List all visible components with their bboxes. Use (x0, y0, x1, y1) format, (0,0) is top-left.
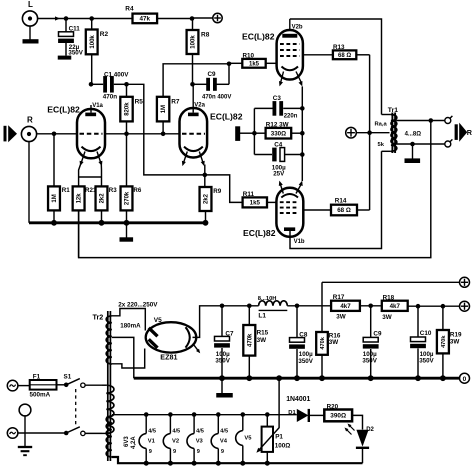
svg-text:47k: 47k (140, 16, 151, 23)
svg-text:4/5: 4/5 (220, 429, 228, 435)
wire Tr1 secondary bottom (397, 142, 445, 147)
node grid junctions (52, 132, 166, 137)
capacitor C10 (410, 306, 434, 378)
svg-text:820k: 820k (125, 102, 131, 116)
svg-text:1k5: 1k5 (250, 200, 261, 207)
wire R20 to LED (352, 415, 362, 429)
svg-text:1k5: 1k5 (249, 62, 260, 68)
transformer Tr1 (375, 107, 422, 153)
resistor R6 (121, 134, 142, 223)
svg-text:C9: C9 (208, 71, 217, 78)
ground symbol cathode network (235, 126, 254, 141)
svg-text:Tr2: Tr2 (93, 313, 104, 322)
supply terminal + (preamp) (192, 13, 222, 22)
svg-text:V5: V5 (244, 436, 252, 442)
wire Tr2 HV centre tap to ground (112, 337, 134, 378)
choke L1 (258, 296, 331, 319)
wire L input to R4 and supply node (38, 16, 193, 20)
triode V2a (180, 84, 243, 166)
wire grid network V2b (R7 top to R10/C9 node) (163, 64, 229, 97)
svg-text:C1 400V: C1 400V (104, 71, 129, 78)
resistor R18 (382, 294, 408, 321)
wire negative feedback loop (79, 121, 431, 258)
input jack R (21, 116, 36, 142)
svg-text:3W: 3W (336, 314, 346, 321)
svg-text:68 Ω: 68 Ω (338, 53, 351, 59)
resistor R16 (316, 282, 341, 378)
resistor R9 (200, 187, 222, 223)
input icon R channel (4, 125, 18, 142)
resistor R3 (96, 186, 118, 223)
pentode V1b (243, 181, 305, 246)
capacitor C9 coupling (190, 62, 231, 101)
ground bus psu (134, 375, 460, 381)
earth symbol (18, 447, 32, 455)
svg-text:2k2: 2k2 (100, 193, 106, 204)
svg-text:Ra,a: Ra,a (375, 121, 388, 127)
svg-text:500mA: 500mA (30, 392, 51, 399)
svg-text:100k: 100k (90, 35, 96, 49)
capacitor C7 (214, 304, 234, 379)
svg-text:4/5: 4/5 (196, 429, 204, 435)
svg-text:8...10H: 8...10H (258, 296, 277, 302)
resistor R7 (157, 97, 180, 134)
wire top B+ rail (322, 281, 460, 283)
pentode V2b (242, 19, 303, 86)
wire V2b plate to Tr1 primary top (290, 19, 382, 115)
svg-text:V3: V3 (196, 439, 204, 445)
fuse F1 (30, 373, 57, 398)
svg-text:470k: 470k (320, 336, 326, 349)
mains terminal live (7, 380, 29, 391)
capacitor C3 (254, 95, 302, 119)
mains terminal neutral (7, 428, 64, 439)
svg-text:470n 400V: 470n 400V (202, 94, 231, 100)
wire screen rail R13/R14 to supply node (367, 55, 372, 210)
svg-text:4k7: 4k7 (390, 303, 401, 310)
svg-text:L1: L1 (258, 313, 266, 320)
output terminal top (445, 116, 453, 124)
svg-text:C3: C3 (273, 95, 282, 102)
heater V4 (211, 415, 228, 464)
earth terminal (19, 404, 31, 447)
resistor R20 (324, 404, 352, 422)
svg-text:1N4001: 1N4001 (286, 396, 310, 403)
resistor R1 (48, 134, 70, 223)
svg-text:R14: R14 (335, 198, 347, 205)
resistor R12 (254, 122, 302, 139)
wire R jack ground stem (28, 142, 30, 223)
switch link dashed (75, 389, 77, 427)
svg-text:R7: R7 (171, 98, 180, 105)
svg-text:100Ω: 100Ω (275, 443, 291, 450)
ground bus amp (29, 220, 208, 226)
resistor R13 (303, 44, 370, 59)
ground below C11 (58, 56, 72, 60)
svg-text:R12 3W: R12 3W (266, 122, 289, 129)
svg-text:220n: 220n (284, 114, 298, 120)
svg-text:270k: 270k (125, 191, 131, 205)
svg-text:2k2: 2k2 (204, 193, 210, 204)
diode D1 1N4001 (286, 396, 324, 422)
wire Tr2 HV top to EZ81 anode (112, 309, 145, 331)
resistor R19 (437, 306, 462, 378)
svg-text:12k: 12k (77, 193, 83, 204)
svg-text:R9: R9 (213, 188, 221, 195)
potentiometer P1 (262, 415, 291, 464)
svg-text:C4: C4 (274, 141, 283, 148)
svg-text:V2: V2 (172, 439, 179, 445)
wire C1 out to V1b grid via bottom run (127, 84, 243, 202)
svg-text:R17: R17 (333, 294, 345, 301)
resistor R15 (243, 304, 268, 379)
svg-text:R5: R5 (135, 98, 144, 105)
svg-text:R4: R4 (125, 5, 134, 12)
svg-text:350V: 350V (362, 358, 377, 365)
svg-text:470n: 470n (103, 94, 118, 101)
svg-text:5k: 5k (378, 142, 385, 148)
heater V1 (139, 415, 156, 464)
svg-text:V1b: V1b (294, 239, 305, 245)
svg-text:EC(L)82: EC(L)82 (47, 105, 80, 115)
capacitor C1 coupling (89, 71, 130, 100)
svg-text:EZ81: EZ81 (160, 353, 177, 362)
heater V5 (236, 415, 253, 464)
svg-text:330Ω: 330Ω (271, 130, 286, 137)
svg-text:V1: V1 (148, 439, 156, 445)
svg-text:R6: R6 (133, 187, 141, 194)
wire V1a cathode to R21/R3 (79, 165, 102, 187)
resistor R14 (303, 198, 369, 216)
svg-text:P1: P1 (275, 433, 283, 440)
svg-text:R10: R10 (243, 53, 255, 60)
svg-text:R20: R20 (327, 404, 339, 411)
ground below L jack (23, 26, 39, 44)
wire Tr1 secondary top to output (397, 118, 445, 123)
svg-text:9: 9 (197, 449, 200, 455)
svg-text:68 Ω: 68 Ω (337, 207, 351, 214)
svg-text:3W: 3W (382, 314, 392, 321)
svg-text:100k: 100k (191, 35, 197, 49)
node supply-left junction dots (64, 16, 195, 21)
svg-text:R8: R8 (201, 32, 210, 39)
resistor R5 (120, 84, 143, 133)
switch S1a (57, 373, 103, 387)
output terminal bottom (445, 139, 453, 147)
svg-text:9: 9 (173, 449, 176, 455)
svg-text:V1a: V1a (92, 103, 103, 109)
svg-text:C11: C11 (69, 26, 81, 33)
wire cathode network right rail (300, 86, 305, 181)
svg-text:9: 9 (221, 449, 224, 455)
svg-text:V5: V5 (154, 317, 162, 324)
svg-text:R18: R18 (383, 294, 395, 301)
svg-text:390Ω: 390Ω (330, 413, 346, 420)
svg-text:350V: 350V (215, 358, 230, 365)
svg-text:C10: C10 (420, 330, 432, 337)
resistor R11 (243, 191, 277, 207)
svg-text:R: R (27, 116, 33, 125)
svg-text:C9: C9 (373, 331, 382, 338)
supply output terminal + upper (460, 277, 470, 287)
svg-text:EC(L)82: EC(L)82 (210, 111, 243, 121)
svg-text:EC(L)82: EC(L)82 (242, 32, 275, 42)
wire EZ81 cathode to B+ rail (193, 306, 259, 338)
svg-text:350V: 350V (298, 358, 313, 365)
svg-text:3W: 3W (257, 337, 267, 344)
svg-text:R3: R3 (109, 187, 117, 194)
ground symbol psu bus (216, 378, 233, 397)
svg-text:2x 220...250V: 2x 220...250V (118, 301, 158, 308)
svg-text:V2a: V2a (194, 102, 205, 108)
svg-text:4,2A: 4,2A (131, 436, 137, 449)
svg-text:350V: 350V (419, 358, 434, 365)
supply terminal + (output stage) (346, 127, 390, 138)
triode V1a (47, 103, 105, 166)
transformer Tr2 (93, 301, 159, 461)
svg-text:R: R (467, 128, 473, 137)
resistor R8 (187, 19, 210, 85)
wire heater top rail (112, 412, 297, 417)
LED D2 (345, 424, 375, 464)
speaker icon R output (455, 123, 473, 142)
svg-text:9: 9 (149, 449, 152, 455)
wire V1b plate to Tr1 primary bottom (290, 151, 382, 248)
svg-text:R15: R15 (257, 329, 269, 336)
svg-text:1M: 1M (161, 105, 167, 113)
resistor R2 (86, 19, 109, 85)
svg-text:F1: F1 (33, 373, 41, 380)
svg-text:0: 0 (463, 376, 467, 383)
svg-text:6V3: 6V3 (124, 436, 130, 447)
svg-text:180mA: 180mA (120, 323, 141, 330)
svg-text:D2: D2 (366, 427, 374, 433)
supply output terminal + lower (460, 301, 470, 311)
wire B+ to output terminals (408, 304, 460, 309)
rectifier valve V5 EZ81 (146, 317, 201, 362)
wire cathode network left rail (252, 108, 257, 154)
svg-text:3W: 3W (329, 339, 339, 346)
svg-text:V2b: V2b (292, 24, 303, 30)
resistor R10 (229, 53, 278, 68)
switch S1b (64, 427, 102, 436)
svg-text:4k7: 4k7 (340, 303, 351, 310)
svg-text:25V: 25V (273, 171, 285, 178)
capacitor C4 (254, 141, 302, 177)
capacitor C8 (289, 304, 314, 379)
svg-text:470k: 470k (247, 333, 253, 347)
svg-text:S1: S1 (64, 373, 72, 380)
svg-text:R21: R21 (85, 187, 97, 194)
wire P1 wiper to ground (256, 378, 279, 453)
svg-text:C8: C8 (299, 332, 308, 339)
svg-text:350V: 350V (68, 50, 83, 57)
svg-text:470k: 470k (441, 335, 447, 348)
wire Tr2 HV bottom to EZ81 anode (112, 349, 145, 369)
resistor R17 (331, 294, 360, 321)
svg-text:R13: R13 (333, 44, 345, 51)
svg-text:EC(L)82: EC(L)82 (243, 228, 276, 238)
ground symbol below R6 (120, 223, 134, 242)
heater V3 (187, 415, 204, 464)
svg-text:1M: 1M (52, 194, 58, 202)
svg-text:4/5: 4/5 (172, 429, 180, 435)
svg-text:R2: R2 (100, 31, 109, 38)
wire heater bottom rail (112, 457, 363, 466)
input jack L (22, 0, 37, 26)
supply output terminal 0 (460, 373, 470, 383)
svg-text:L: L (28, 0, 33, 9)
svg-text:R1: R1 (62, 187, 70, 194)
heater V2 (163, 415, 180, 464)
svg-text:D1: D1 (288, 410, 296, 416)
resistor R4 (125, 5, 157, 23)
svg-text:3W: 3W (450, 338, 460, 345)
wire V2a cathode to R9 (203, 165, 208, 188)
svg-text:4/5: 4/5 (148, 429, 156, 435)
wire input grid line (37, 133, 181, 135)
capacitor C9 psu (360, 304, 382, 379)
capacitor C11 (58, 19, 84, 57)
svg-text:4...8Ω: 4...8Ω (405, 132, 422, 138)
ground symbol Tr1 secondary (405, 144, 421, 163)
svg-text:C7: C7 (225, 330, 234, 337)
resistor R21 (73, 186, 97, 257)
svg-text:R11: R11 (243, 191, 255, 198)
svg-text:V4: V4 (220, 439, 228, 445)
